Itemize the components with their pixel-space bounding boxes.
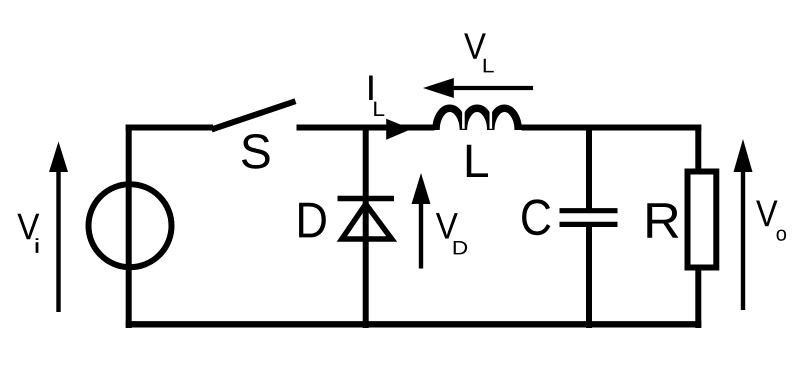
capacitor C top plate bbox=[560, 208, 618, 213]
inductor L cusp gap left bbox=[462, 111, 465, 129]
wire bottom horizontal bbox=[126, 321, 702, 327]
capacitor C bottom plate bbox=[560, 222, 618, 227]
inductor L bbox=[436, 108, 518, 130]
label VL bbox=[464, 33, 494, 72]
wire top right segment bbox=[522, 125, 702, 131]
resistor R body bbox=[688, 172, 717, 268]
voltage source V1 circle bbox=[89, 184, 172, 267]
label S bbox=[242, 134, 270, 169]
wire capacitor branch bottom bbox=[586, 224, 592, 328]
diode D cathode bar bbox=[338, 196, 395, 202]
arrow Vi bbox=[49, 142, 68, 313]
switch S blade bbox=[212, 101, 296, 129]
arrow Vo bbox=[734, 139, 753, 310]
label VD bbox=[436, 213, 467, 254]
label D bbox=[299, 203, 326, 238]
arrow VL bbox=[423, 78, 533, 98]
wire left vertical bbox=[126, 125, 132, 329]
wire diode branch vertical bbox=[363, 125, 369, 329]
label IL bbox=[369, 75, 384, 116]
label L bbox=[467, 145, 488, 177]
wire top middle segment bbox=[297, 125, 435, 131]
wire resistor branch bottom bbox=[695, 266, 701, 328]
label Vo bbox=[756, 200, 786, 240]
current arrow IL head bbox=[386, 119, 411, 140]
wire capacitor branch top bbox=[586, 125, 592, 211]
label R bbox=[647, 203, 678, 238]
wire resistor branch top bbox=[695, 125, 701, 173]
label C bbox=[522, 199, 550, 235]
inductor L cusp gap right bbox=[489, 111, 492, 129]
wire top left segment bbox=[126, 125, 213, 131]
label Vi bbox=[17, 214, 39, 253]
diode D triangle bbox=[342, 204, 392, 239]
arrow VD bbox=[412, 173, 431, 269]
